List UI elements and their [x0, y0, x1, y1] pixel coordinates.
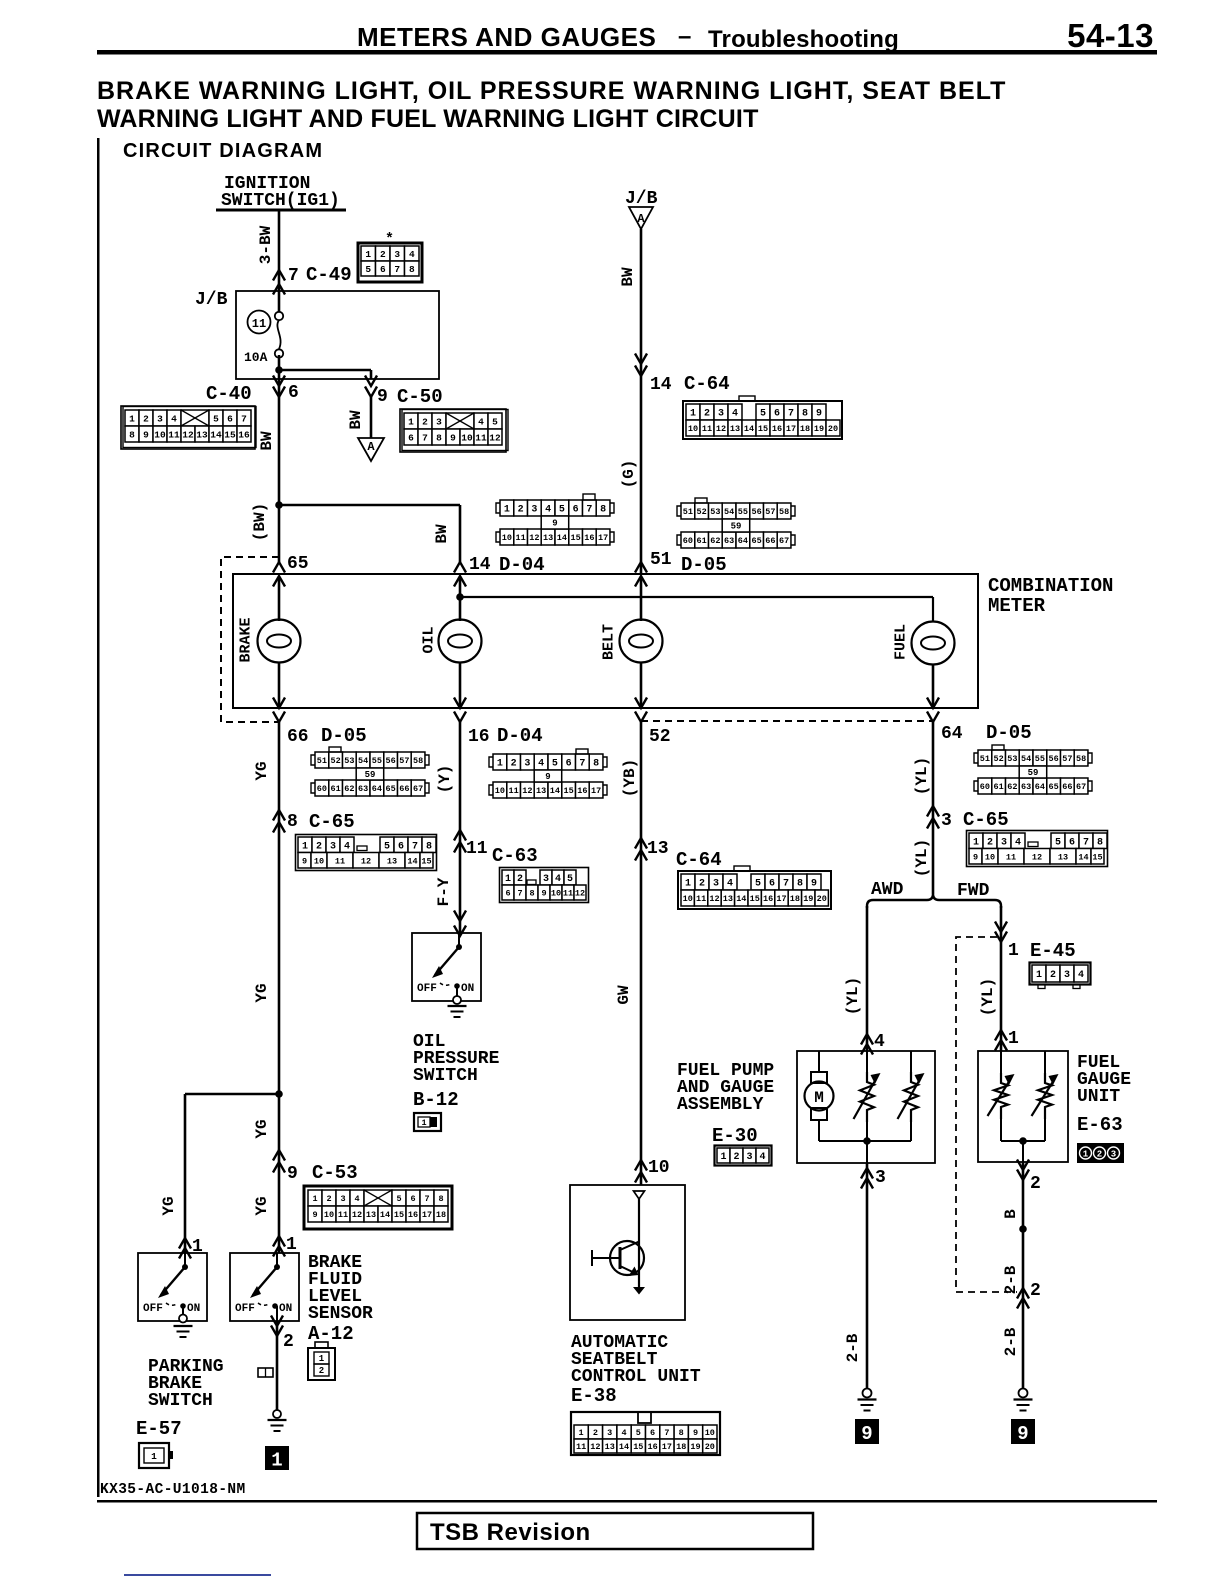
- svg-text:67: 67: [779, 536, 789, 546]
- svg-text:D-05: D-05: [321, 725, 367, 747]
- svg-text:COMBINATION: COMBINATION: [988, 575, 1113, 597]
- connector arrow pin 9 C-50: [365, 376, 377, 387]
- svg-text:7: 7: [241, 413, 247, 424]
- svg-text:16: 16: [772, 424, 782, 434]
- svg-text:12: 12: [522, 786, 532, 796]
- svg-text:2: 2: [1030, 1174, 1041, 1194]
- connector A-12 pin box: [308, 1348, 335, 1380]
- wire AWD branch (YL): [866, 906, 869, 1051]
- svg-text:5: 5: [559, 505, 565, 516]
- svg-text:(YL): (YL): [844, 977, 862, 1015]
- connector D-05 pin grid (64): [978, 750, 992, 766]
- svg-text:63: 63: [1021, 782, 1031, 792]
- svg-text:(YL): (YL): [979, 978, 997, 1016]
- parking brake switch contact to ground: [182, 1306, 184, 1316]
- svg-text:(YL): (YL): [913, 839, 931, 877]
- svg-text:17: 17: [662, 1442, 672, 1452]
- svg-text:16: 16: [647, 1442, 657, 1452]
- section left border line: [97, 138, 100, 1497]
- svg-text:13: 13: [730, 424, 740, 434]
- svg-text:BW: BW: [619, 267, 637, 287]
- connector D-05 pin grid (66): [315, 752, 329, 768]
- svg-text:6: 6: [1069, 837, 1075, 848]
- svg-text:8: 8: [129, 429, 135, 440]
- junction dot fuel gauge ground wire: [1019, 1225, 1027, 1233]
- connector arrow pin 1 fuel gauge unit: [995, 1030, 1007, 1041]
- svg-text:6: 6: [408, 432, 414, 443]
- connector arrow pin 4 fuel pump: [861, 1034, 873, 1045]
- svg-text:E-38: E-38: [571, 1385, 617, 1407]
- junction dot fuel gauge output: [1019, 1137, 1027, 1145]
- svg-text:D-04: D-04: [499, 554, 545, 576]
- svg-text:52: 52: [330, 756, 340, 766]
- svg-text:57: 57: [399, 756, 409, 766]
- svg-text:5: 5: [384, 841, 390, 852]
- svg-text:9: 9: [450, 432, 456, 443]
- svg-text:CIRCUIT DIAGRAM: CIRCUIT DIAGRAM: [123, 140, 323, 162]
- svg-text:SWITCH(IG1): SWITCH(IG1): [221, 191, 340, 211]
- svg-text:64: 64: [372, 784, 382, 794]
- svg-text:13: 13: [647, 839, 669, 859]
- fuel pump motor M1: [818, 1051, 820, 1072]
- svg-text:3: 3: [524, 759, 530, 770]
- svg-text:FWD: FWD: [957, 881, 990, 901]
- svg-text:2-B: 2-B: [844, 1333, 862, 1362]
- svg-text:2: 2: [422, 416, 428, 427]
- input triangle (seatbelt unit): [634, 1191, 645, 1199]
- svg-text:BW: BW: [258, 431, 276, 451]
- wire FWD branch (YL): [1000, 906, 1003, 1051]
- svg-text:7: 7: [664, 1428, 669, 1438]
- svg-text:58: 58: [779, 507, 789, 517]
- ground point 9 black square (right): [1011, 1419, 1035, 1444]
- svg-text:D-04: D-04: [497, 725, 543, 747]
- connector arrow pin 1 E-45: [995, 922, 1007, 933]
- svg-text:3: 3: [746, 1152, 752, 1163]
- wire brake lamp lower: [278, 662, 281, 708]
- svg-text:9: 9: [545, 772, 550, 782]
- connector arrow pin 2 (sensor): [271, 1316, 283, 1327]
- svg-text:6: 6: [566, 759, 572, 770]
- svg-text:52: 52: [696, 507, 706, 517]
- svg-text:F-Y: F-Y: [435, 877, 453, 906]
- connector C-50 pin grid: [400, 409, 506, 452]
- svg-text:9: 9: [302, 856, 307, 866]
- connector arrow pin 64 D-05: [927, 698, 939, 709]
- connector arrow pin 10 E-38: [635, 1160, 647, 1171]
- svg-text:2: 2: [1050, 970, 1056, 981]
- lamp BRAKE: [258, 620, 301, 663]
- svg-text:67: 67: [413, 784, 423, 794]
- fuel pump and gauge assembly box E-30: [797, 1051, 935, 1163]
- svg-text:4: 4: [621, 1428, 626, 1438]
- svg-text:6: 6: [380, 264, 386, 275]
- svg-text:20: 20: [828, 424, 838, 434]
- connector arrow pin 2 (fuel gauge): [1017, 1160, 1029, 1171]
- svg-text:5: 5: [492, 416, 498, 427]
- wire 1 BW below J/B: [278, 379, 281, 562]
- ground (oil pressure switch): [448, 1005, 467, 1007]
- svg-text:10: 10: [985, 852, 995, 862]
- svg-text:54: 54: [724, 507, 734, 517]
- svg-text:13: 13: [196, 429, 208, 440]
- svg-text:2: 2: [283, 1332, 294, 1352]
- svg-text:YG: YG: [160, 1196, 178, 1215]
- svg-text:UNIT: UNIT: [1077, 1087, 1120, 1107]
- wire branch to oil lamp: [279, 504, 460, 507]
- svg-text:51: 51: [980, 754, 990, 764]
- svg-text:55: 55: [738, 507, 748, 517]
- svg-text:4: 4: [344, 841, 350, 852]
- combination meter box: [233, 574, 978, 708]
- svg-text:ASSEMBLY: ASSEMBLY: [677, 1095, 764, 1115]
- svg-text:7: 7: [579, 759, 585, 770]
- svg-text:7: 7: [288, 266, 299, 286]
- wire pin9 to connector A: [370, 395, 373, 438]
- svg-text:J/B: J/B: [625, 189, 658, 209]
- svg-text:1: 1: [1008, 1029, 1019, 1049]
- svg-text:62: 62: [1007, 782, 1017, 792]
- svg-text:56: 56: [751, 507, 761, 517]
- svg-text:3: 3: [875, 1168, 886, 1188]
- svg-text:8: 8: [1097, 837, 1103, 848]
- svg-text:9: 9: [377, 387, 388, 407]
- connector arrow pin 66 D-05: [273, 698, 285, 709]
- svg-text:11: 11: [515, 533, 525, 543]
- svg-text:4: 4: [478, 416, 484, 427]
- svg-text:9: 9: [816, 409, 822, 420]
- wire oil lamp lower: [459, 662, 462, 708]
- svg-text:1: 1: [1008, 941, 1019, 961]
- svg-text:3: 3: [941, 811, 952, 831]
- svg-text:5: 5: [567, 874, 573, 885]
- svg-text:C-65: C-65: [963, 809, 1009, 831]
- svg-text:6: 6: [769, 879, 775, 890]
- svg-text:15: 15: [758, 424, 768, 434]
- svg-text:1: 1: [504, 505, 510, 516]
- svg-text:C-50: C-50: [397, 386, 443, 408]
- svg-text:20: 20: [705, 1442, 715, 1452]
- connector E-57 pin box: [139, 1443, 169, 1468]
- svg-text:4: 4: [727, 879, 733, 890]
- wire B fuel gauge: [1022, 1162, 1025, 1389]
- variable resistor R1 (fuel gauge sender AWD): [866, 1051, 868, 1072]
- wire fuse to junction: [278, 355, 281, 379]
- svg-text:4: 4: [874, 1032, 885, 1052]
- svg-text:Troubleshooting: Troubleshooting: [708, 26, 899, 53]
- svg-text:65: 65: [1048, 782, 1058, 792]
- svg-text:SWITCH: SWITCH: [413, 1066, 478, 1086]
- svg-text:66: 66: [1062, 782, 1072, 792]
- svg-text:10: 10: [324, 1210, 334, 1220]
- svg-text:3: 3: [340, 1194, 345, 1204]
- svg-text:14: 14: [469, 555, 491, 575]
- svg-text:14: 14: [744, 424, 754, 434]
- svg-text:10A: 10A: [244, 350, 268, 365]
- svg-text:5: 5: [755, 879, 761, 890]
- svg-text:4: 4: [1078, 970, 1084, 981]
- svg-text:9: 9: [693, 1428, 698, 1438]
- svg-text:2: 2: [518, 505, 524, 516]
- junction dot wire1 to oil branch: [275, 501, 283, 509]
- svg-text:7: 7: [424, 1194, 429, 1204]
- svg-text:1: 1: [319, 1354, 325, 1364]
- svg-text:9: 9: [861, 1423, 872, 1445]
- svg-text:6: 6: [410, 1194, 415, 1204]
- svg-text:16: 16: [584, 533, 594, 543]
- wire belt lamp lower: [640, 662, 643, 708]
- svg-text:C-65: C-65: [309, 811, 355, 833]
- svg-text:8: 8: [679, 1428, 684, 1438]
- svg-text:3: 3: [1064, 970, 1070, 981]
- junction dot fuel pump output: [863, 1137, 871, 1145]
- wire brake lamp upper: [278, 576, 281, 621]
- svg-text:ON: ON: [279, 1303, 292, 1315]
- svg-text:3: 3: [543, 874, 549, 885]
- svg-text:METER: METER: [988, 595, 1046, 617]
- fuel gauge output wire pin 2: [1022, 1141, 1024, 1162]
- svg-text:13: 13: [536, 786, 546, 796]
- svg-text:1: 1: [505, 874, 511, 885]
- svg-text:63: 63: [358, 784, 368, 794]
- svg-text:19: 19: [690, 1442, 700, 1452]
- svg-text:2: 2: [704, 409, 710, 420]
- wire branch to pin 9: [279, 369, 371, 372]
- svg-text:1: 1: [690, 409, 696, 420]
- wire fuel lamp lower: [932, 664, 935, 708]
- svg-text:4: 4: [759, 1152, 765, 1163]
- svg-text:OFF: OFF: [235, 1303, 255, 1315]
- svg-text:6: 6: [288, 383, 299, 403]
- svg-text:YG: YG: [253, 1119, 271, 1138]
- svg-text:57: 57: [1062, 754, 1072, 764]
- svg-text:5: 5: [552, 759, 558, 770]
- svg-text:2: 2: [143, 413, 149, 424]
- svg-text:1: 1: [286, 1235, 297, 1255]
- svg-text:A: A: [637, 212, 645, 226]
- ground (brake fluid sensor): [268, 1419, 287, 1421]
- svg-text:E-30: E-30: [712, 1125, 758, 1147]
- svg-text:14: 14: [550, 786, 560, 796]
- svg-text:3-BW: 3-BW: [257, 225, 275, 264]
- svg-text:67: 67: [1076, 782, 1086, 792]
- connector arrow pin 14 D-04: [454, 562, 466, 573]
- transistor Q1 (seatbelt unit): [610, 1241, 644, 1275]
- svg-text:10: 10: [551, 889, 561, 899]
- svg-text:E-57: E-57: [136, 1418, 182, 1440]
- svg-text:AWD: AWD: [871, 880, 904, 900]
- svg-text:51: 51: [683, 507, 693, 517]
- svg-text:KX35-AC-U1018-NM: KX35-AC-U1018-NM: [100, 1482, 246, 1498]
- svg-text:9: 9: [811, 879, 817, 890]
- inline connector symbol on sensor ground wire: [258, 1368, 273, 1377]
- svg-text:2: 2: [1097, 1150, 1102, 1160]
- junction block J/B box: [236, 291, 439, 379]
- svg-text:8: 8: [287, 812, 298, 832]
- svg-text:8: 8: [802, 409, 808, 420]
- ground terminal circle (sensor): [273, 1410, 281, 1418]
- svg-text:13: 13: [723, 894, 733, 904]
- svg-text:8: 8: [438, 1194, 443, 1204]
- svg-text:B: B: [1002, 1209, 1020, 1219]
- combination meter dashed outline: [221, 557, 279, 722]
- svg-text:6: 6: [398, 841, 404, 852]
- svg-text:4: 4: [732, 409, 738, 420]
- svg-text:1: 1: [129, 413, 135, 424]
- svg-text:59: 59: [1028, 768, 1039, 778]
- svg-text:BW: BW: [347, 410, 365, 430]
- connector arrow pin 8 C-65: [273, 810, 285, 821]
- svg-text:3: 3: [1001, 837, 1007, 848]
- svg-text:10: 10: [705, 1428, 715, 1438]
- connector arrow pin 6 C-40: [273, 376, 285, 387]
- svg-text:14: 14: [407, 856, 417, 866]
- svg-text:15: 15: [1092, 852, 1102, 862]
- header rule: [97, 50, 1157, 55]
- svg-text:11: 11: [252, 317, 266, 331]
- svg-text:3: 3: [713, 879, 719, 890]
- svg-text:12: 12: [182, 429, 194, 440]
- svg-text:14: 14: [619, 1442, 629, 1452]
- svg-text:57: 57: [765, 507, 775, 517]
- svg-text:66: 66: [399, 784, 409, 794]
- connector arrow pin 1 parking brake switch: [179, 1238, 191, 1249]
- svg-text:WARNING LIGHT AND FUEL WARNING: WARNING LIGHT AND FUEL WARNING LIGHT CIR…: [97, 105, 759, 133]
- svg-text:6: 6: [573, 505, 579, 516]
- svg-text:15: 15: [224, 429, 236, 440]
- svg-text:11: 11: [1006, 852, 1016, 862]
- svg-text:58: 58: [1076, 754, 1086, 764]
- svg-text:ON: ON: [461, 983, 474, 995]
- connector C-65 pin grid (3): [969, 833, 983, 849]
- svg-text:12: 12: [352, 1210, 362, 1220]
- sensor output wire pin 2: [276, 1306, 278, 1321]
- svg-text:SENSOR: SENSOR: [308, 1304, 373, 1324]
- svg-text:3: 3: [436, 416, 442, 427]
- svg-text:18: 18: [800, 424, 810, 434]
- svg-text:52: 52: [649, 727, 671, 747]
- junction dot in J/B: [275, 366, 283, 374]
- svg-text:6: 6: [774, 409, 780, 420]
- svg-text:4: 4: [555, 874, 561, 885]
- wire into fuse: [278, 291, 281, 312]
- connector C-49 pin grid: [358, 243, 422, 282]
- svg-text:53: 53: [710, 507, 720, 517]
- svg-text:1: 1: [1083, 1150, 1089, 1160]
- svg-text:GW: GW: [615, 985, 633, 1005]
- svg-text:E-63: E-63: [1077, 1114, 1123, 1136]
- connector C-63 pin grid: [502, 870, 514, 885]
- svg-text:61: 61: [993, 782, 1003, 792]
- connector arrow pin 14 C-64: [635, 354, 647, 365]
- svg-text:11: 11: [168, 429, 180, 440]
- svg-text:8: 8: [529, 889, 534, 899]
- svg-text:11: 11: [702, 424, 712, 434]
- svg-text:2: 2: [987, 837, 993, 848]
- svg-text:9: 9: [973, 852, 978, 862]
- svg-text:10: 10: [683, 894, 693, 904]
- svg-text:65: 65: [385, 784, 395, 794]
- ground (fuel pump): [858, 1398, 877, 1400]
- svg-text:15: 15: [394, 1210, 404, 1220]
- svg-text:5: 5: [636, 1428, 641, 1438]
- svg-text:7: 7: [412, 841, 418, 852]
- svg-text:10: 10: [495, 786, 505, 796]
- connector arrow pin 2 (body ground side): [1017, 1288, 1029, 1299]
- svg-text:61: 61: [330, 784, 340, 794]
- svg-text:7: 7: [783, 879, 789, 890]
- svg-text:11: 11: [335, 856, 345, 866]
- svg-text:66: 66: [765, 536, 775, 546]
- svg-text:15: 15: [570, 533, 580, 543]
- svg-text:10: 10: [461, 432, 473, 443]
- svg-text:3: 3: [157, 413, 163, 424]
- TSB Revision box: [417, 1513, 813, 1549]
- svg-text:17: 17: [776, 894, 786, 904]
- junction dot oil feed: [456, 593, 464, 601]
- connector C-40 pin grid: [121, 406, 255, 449]
- svg-text:17: 17: [598, 533, 608, 543]
- connector C-64 pin grid (top): [686, 404, 700, 420]
- lamp OIL: [439, 620, 482, 663]
- svg-text:17: 17: [591, 786, 601, 796]
- svg-text:3: 3: [607, 1428, 612, 1438]
- svg-text:C-64: C-64: [676, 849, 722, 871]
- svg-text:7: 7: [517, 889, 522, 899]
- svg-text:12: 12: [716, 424, 726, 434]
- svg-text:11: 11: [563, 889, 573, 899]
- svg-text:1: 1: [302, 841, 308, 852]
- ground point 1 black square: [265, 1446, 289, 1470]
- svg-text:66: 66: [287, 727, 309, 747]
- svg-text:64: 64: [738, 536, 748, 546]
- svg-text:18: 18: [436, 1210, 446, 1220]
- svg-text:54-13: 54-13: [1067, 17, 1154, 54]
- svg-text:12: 12: [590, 1442, 600, 1452]
- wire belt lamp upper: [640, 576, 643, 621]
- parking brake switch box E-57: [138, 1253, 207, 1321]
- svg-text:9: 9: [552, 519, 557, 529]
- svg-text:14: 14: [557, 533, 567, 543]
- svg-text:59: 59: [365, 770, 376, 780]
- wire branch to parking brake switch: [185, 1093, 279, 1096]
- svg-text:2: 2: [1030, 1281, 1041, 1301]
- svg-text:59: 59: [731, 522, 742, 532]
- svg-text:16: 16: [763, 894, 773, 904]
- svg-text:METERS AND GAUGES: METERS AND GAUGES: [357, 22, 656, 52]
- ignition switch bus line: [216, 209, 346, 212]
- svg-text:4: 4: [545, 505, 551, 516]
- svg-text:12: 12: [1032, 852, 1042, 862]
- connector arrow pin 3 C-65: [927, 806, 939, 817]
- svg-text:11: 11: [475, 432, 487, 443]
- svg-text:7: 7: [788, 409, 794, 420]
- svg-text:2: 2: [593, 1428, 598, 1438]
- oil pressure switch contact to ground: [456, 986, 458, 997]
- svg-text:12: 12: [709, 894, 719, 904]
- svg-text:52: 52: [993, 754, 1003, 764]
- svg-text:14: 14: [210, 429, 222, 440]
- svg-text:4: 4: [1015, 837, 1021, 848]
- destination triangle A (to J/B): [358, 438, 384, 461]
- connector arrow pin 3 (fuel pump): [861, 1168, 873, 1179]
- svg-text:51: 51: [317, 756, 327, 766]
- connector E-30 pin grid: [717, 1148, 730, 1163]
- svg-text:C-49: C-49: [306, 264, 352, 286]
- svg-text:6: 6: [227, 413, 233, 424]
- svg-text:62: 62: [344, 784, 354, 794]
- svg-text:60: 60: [980, 782, 990, 792]
